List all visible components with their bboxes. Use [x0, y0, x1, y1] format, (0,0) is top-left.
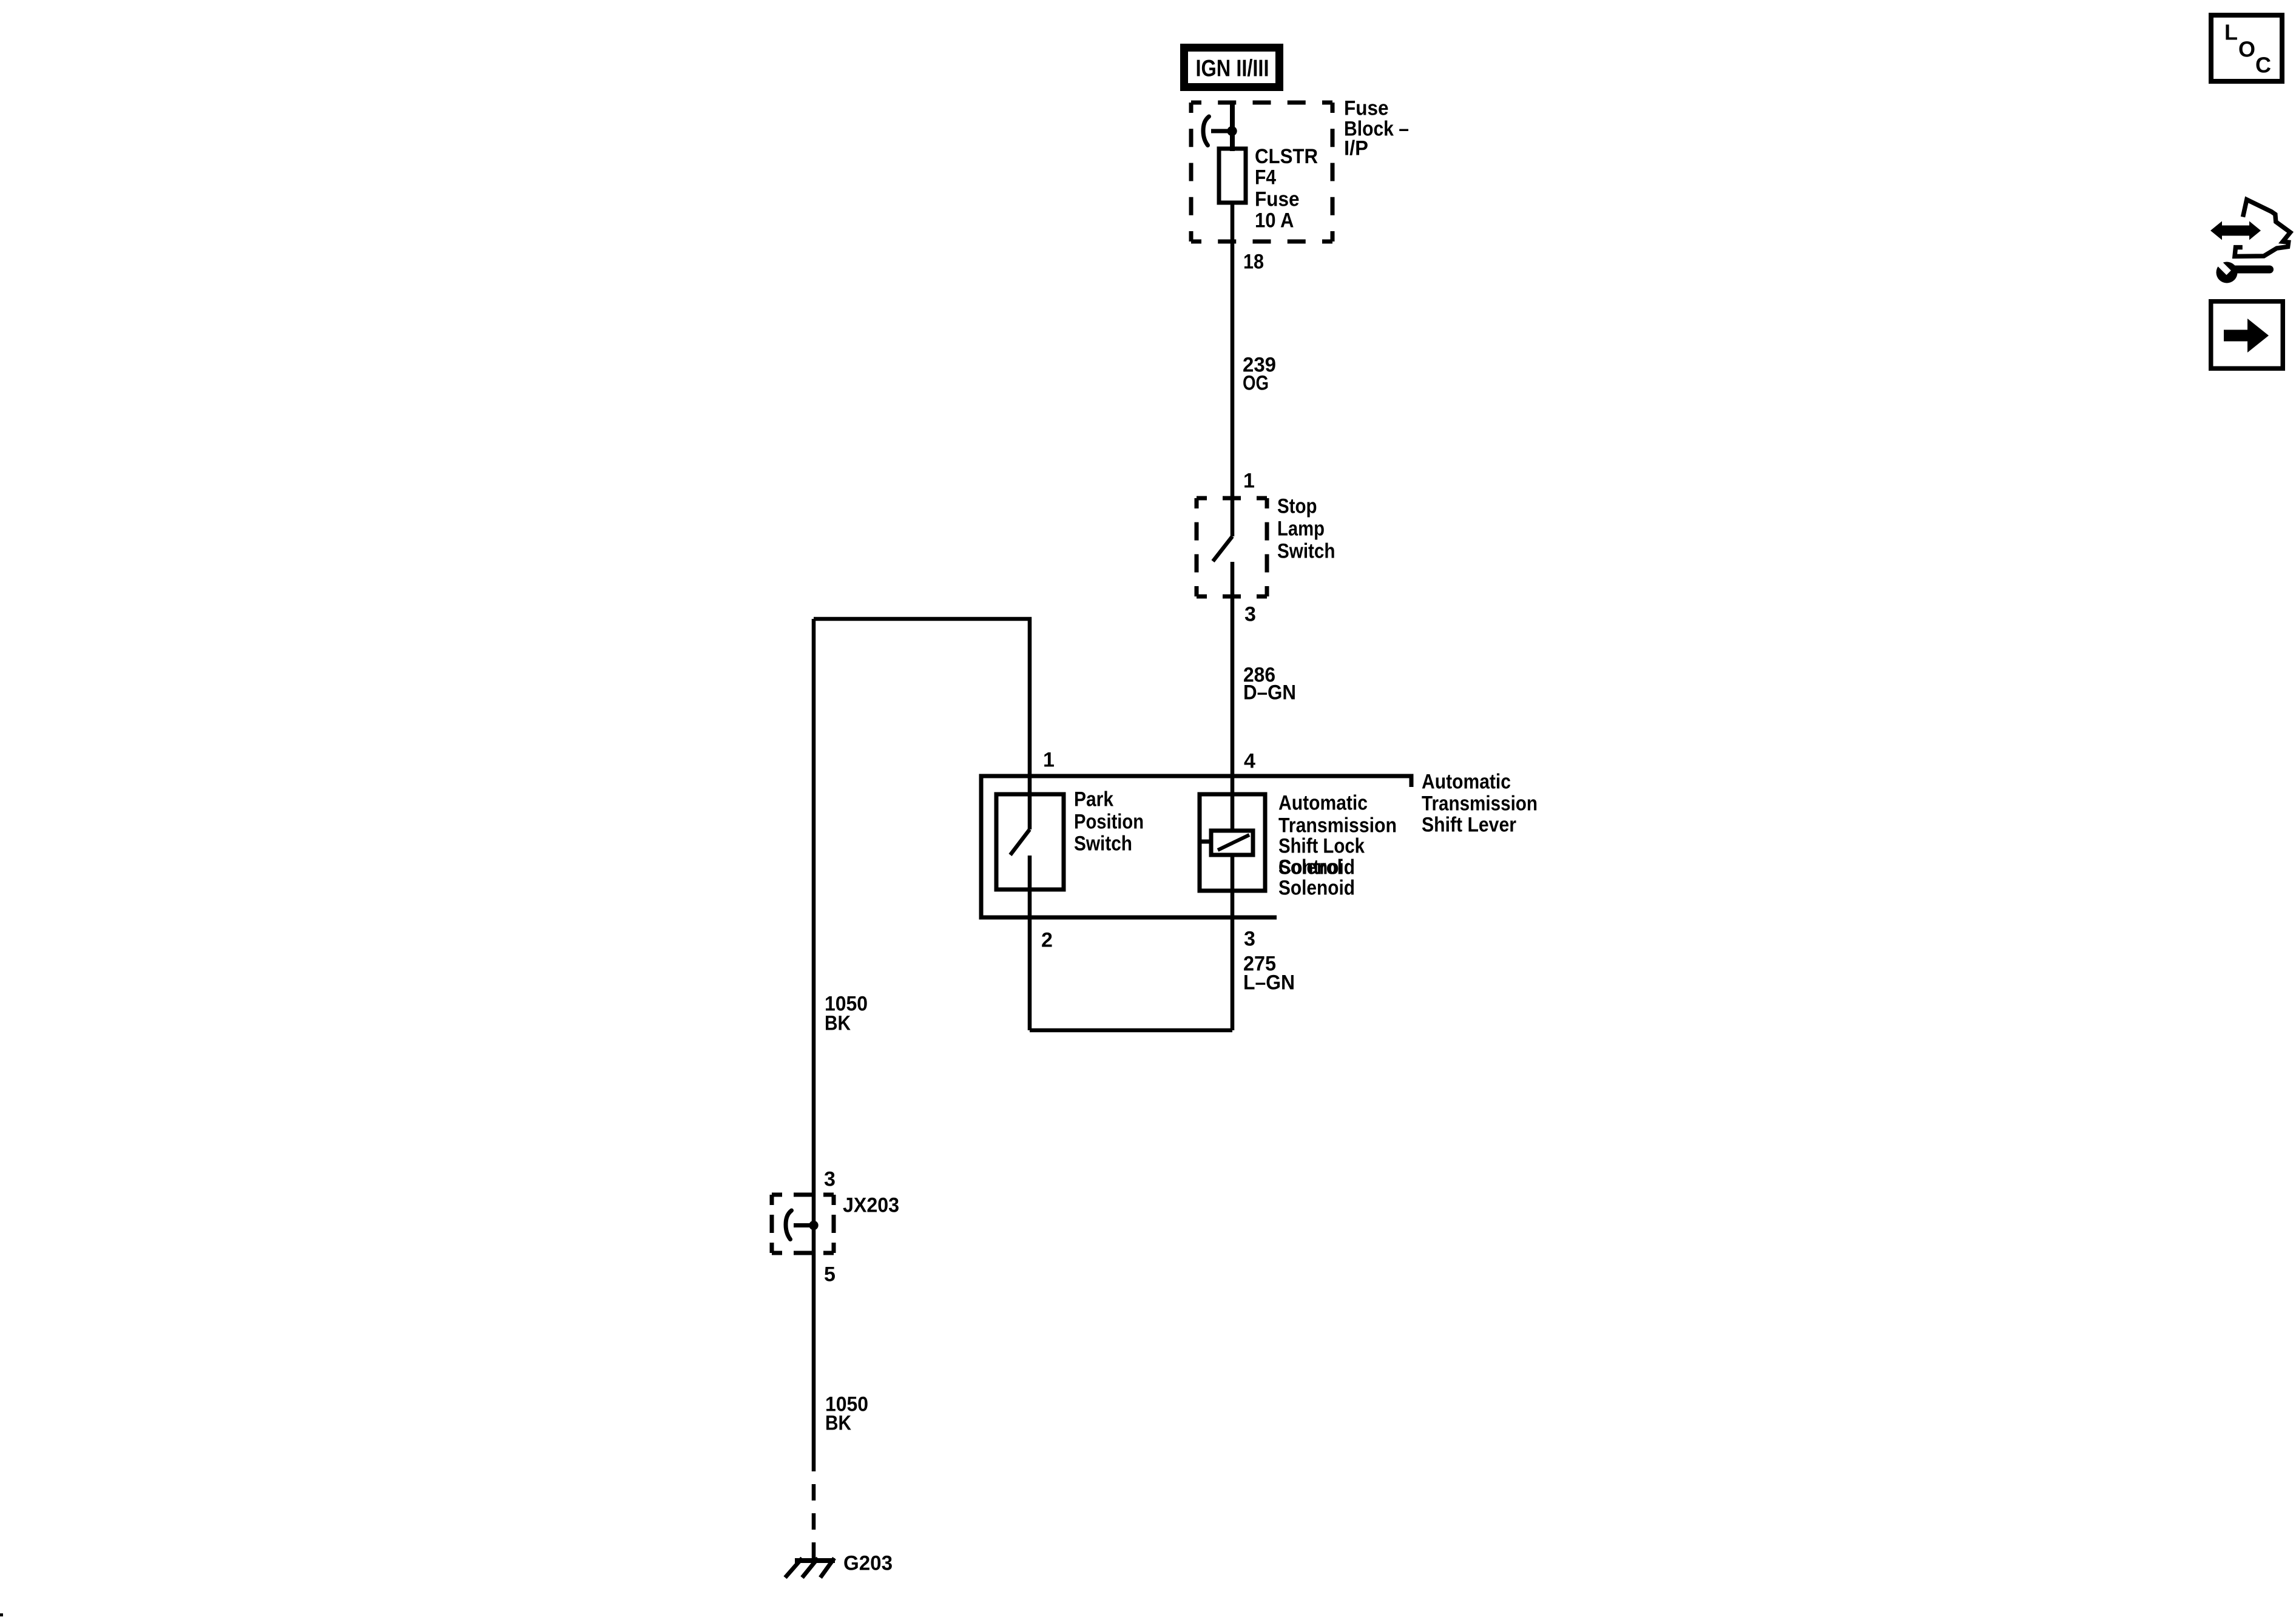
svg-text:Automatic: Automatic — [1278, 792, 1368, 815]
svg-text:F4: F4 — [1255, 166, 1276, 189]
svg-text:CLSTR: CLSTR — [1255, 145, 1318, 168]
svg-text:BK: BK — [825, 1412, 851, 1435]
label Automatic Transmission Shift Lever — [1422, 771, 1538, 837]
wire: fuse output inside block — [1231, 203, 1235, 243]
wire 1050 BK: long ground wire — [812, 619, 816, 1471]
svg-text:I/P: I/P — [1344, 137, 1368, 160]
svg-text:Fuse: Fuse — [1344, 97, 1389, 120]
power feed label IGN II/III — [1184, 48, 1280, 87]
svg-text:4: 4 — [1244, 750, 1255, 773]
svg-text:D–GN: D–GN — [1243, 681, 1296, 704]
LOC reference icon (top right) — [2211, 15, 2282, 81]
svg-text:C: C — [2255, 53, 2271, 78]
svg-text:OG: OG — [1243, 372, 1269, 395]
junction: splice dot on fuse feed — [1227, 126, 1237, 136]
wire label 275 L-GN — [1243, 953, 1295, 994]
svg-text:Transmission: Transmission — [1278, 814, 1397, 837]
svg-text:JX203: JX203 — [843, 1194, 899, 1217]
svg-text:Automatic: Automatic — [1422, 771, 1511, 794]
value label CLSTR F4 Fuse 10 A — [1255, 145, 1318, 232]
page mark bottom-left — [0, 1613, 3, 1616]
shift lock solenoid box — [1200, 794, 1265, 891]
svg-text:Solenoid: Solenoid — [1278, 877, 1355, 900]
ground G203 — [785, 1558, 835, 1578]
svg-text:3: 3 — [824, 1168, 836, 1191]
park position switch box — [996, 794, 1064, 890]
wire label 286 D-GN — [1243, 664, 1296, 704]
svg-text:Shift Lock: Shift Lock — [1278, 835, 1365, 858]
wire: feed into fuse (inside fuse block) — [1230, 101, 1235, 151]
svg-text:Shift Lever: Shift Lever — [1422, 814, 1516, 837]
label Stop Lamp Switch — [1277, 495, 1335, 563]
svg-text:L–GN: L–GN — [1243, 971, 1295, 994]
label Park Position Switch — [1074, 788, 1144, 856]
svg-text:Lamp: Lamp — [1277, 518, 1325, 541]
fuse CLSTR F4 10 A — [1219, 149, 1246, 203]
label Fuse Block - I/P — [1344, 97, 1409, 160]
svg-text:5: 5 — [824, 1263, 836, 1286]
wire 239 OG: fuse block to stop lamp switch — [1231, 241, 1235, 536]
svg-text:3: 3 — [1244, 603, 1256, 626]
svg-text:Park: Park — [1074, 788, 1113, 811]
svg-text:O: O — [2238, 37, 2255, 62]
wire label 1050 BK (lower) — [825, 1393, 868, 1435]
dashed lead to ground — [812, 1471, 816, 1558]
svg-text:2: 2 — [1041, 929, 1053, 952]
svg-text:G203: G203 — [843, 1552, 893, 1575]
wire 275 L-GN loop joining pin 2 and pin 3 — [1030, 1028, 1232, 1033]
park position switch blade contact — [1010, 829, 1030, 855]
stop lamp switch lower contact stub — [1231, 562, 1235, 596]
svg-text:10 A: 10 A — [1255, 209, 1294, 232]
next-page boxed arrow icon — [2211, 302, 2283, 369]
wire label 239 OG — [1243, 354, 1276, 395]
service information icon: component outline — [2235, 200, 2291, 257]
svg-text:Switch: Switch — [1074, 832, 1132, 856]
svg-text:Transmission: Transmission — [1422, 792, 1538, 815]
service information icon: wrench — [2213, 258, 2274, 283]
wire through solenoid to pin 3 — [1231, 855, 1235, 1030]
node: wire from park switch pin 1 up and left to 1050 BK — [814, 619, 1030, 829]
wire label 1050 BK (upper) — [825, 993, 868, 1035]
stop lamp switch blade contact — [1213, 536, 1232, 561]
svg-text:1: 1 — [1043, 749, 1055, 772]
svg-text:Stop: Stop — [1277, 495, 1317, 518]
svg-text:Fuse: Fuse — [1255, 188, 1300, 211]
svg-text:BK: BK — [825, 1012, 851, 1035]
park position switch lower contact stub — [1028, 856, 1032, 1030]
fuse block internal terminal clip — [1203, 116, 1209, 146]
junction: splice dot in JX203 — [809, 1221, 818, 1230]
fuse block - I/P dashed boundary — [1191, 103, 1332, 241]
svg-text:1: 1 — [1243, 470, 1255, 493]
stop lamp switch dashed boundary — [1197, 498, 1267, 596]
solenoid element (rect with diagonal) — [1201, 831, 1253, 855]
svg-text:3: 3 — [1244, 928, 1255, 951]
JX203 terminal clip — [786, 1210, 792, 1240]
svg-text:Switch: Switch — [1277, 540, 1335, 563]
service information icon: double arrow — [2210, 221, 2261, 240]
connector JX203 dashed boundary — [772, 1195, 834, 1253]
automatic transmission shift lever assembly boundary — [981, 776, 1411, 917]
svg-text:18: 18 — [1243, 251, 1264, 274]
svg-text:Position: Position — [1074, 811, 1144, 834]
svg-text:L: L — [2224, 20, 2238, 45]
svg-text:IGN II/III: IGN II/III — [1196, 55, 1269, 81]
svg-text:Solenoid: Solenoid — [1278, 856, 1355, 879]
label Automatic Transmission Shift Lock Control Solenoid (overprinted) — [1278, 792, 1397, 900]
wire 286 D-GN: stop lamp switch to solenoid — [1231, 596, 1235, 831]
